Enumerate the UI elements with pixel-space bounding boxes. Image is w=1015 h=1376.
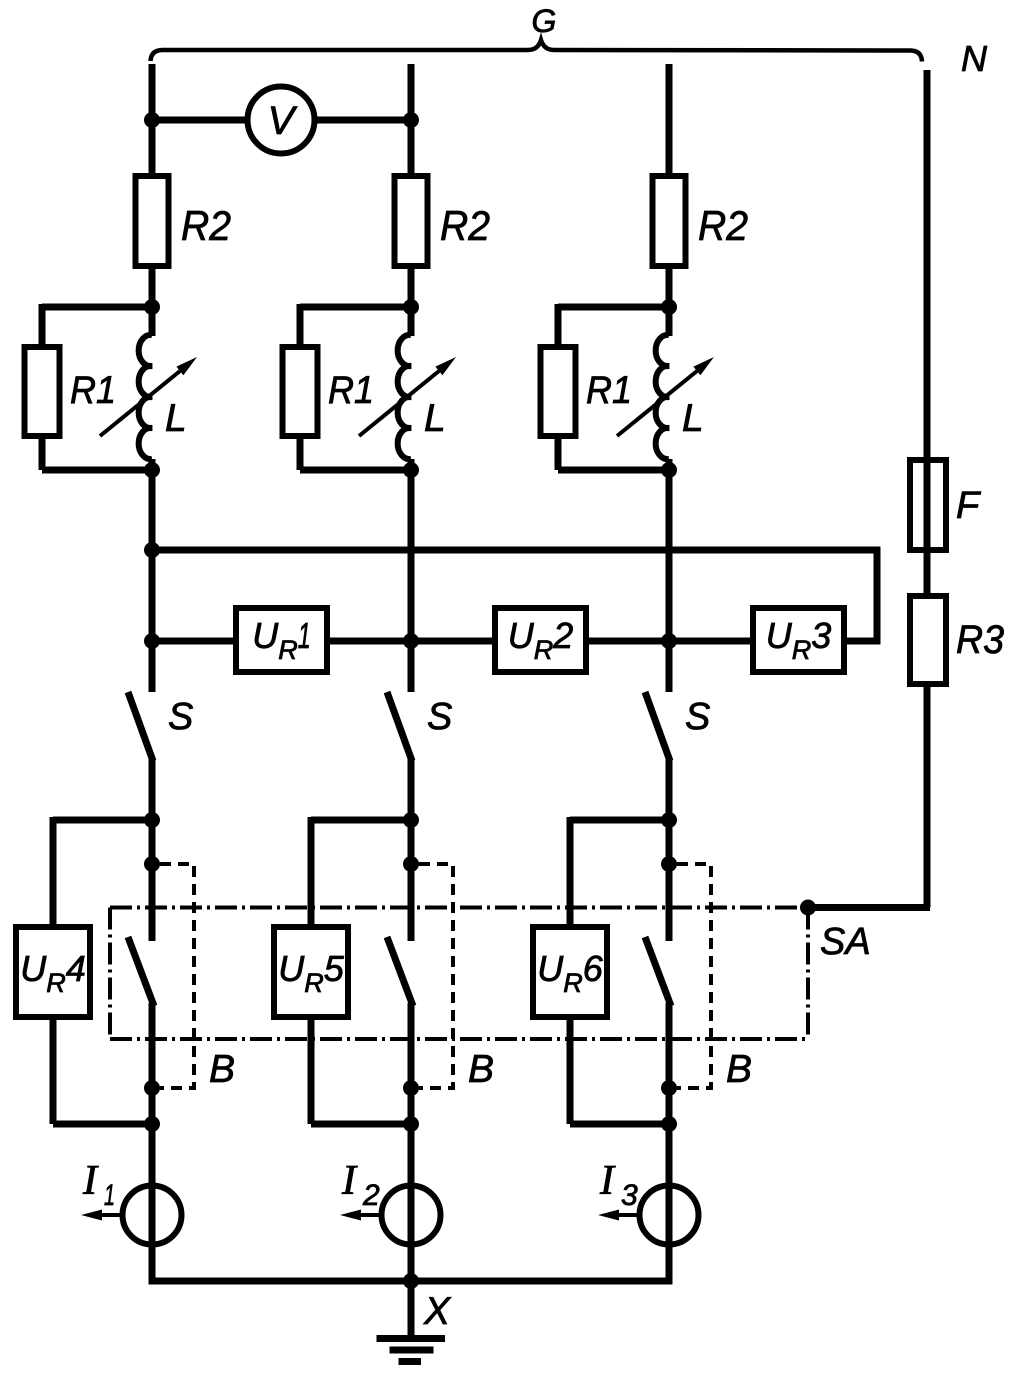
wire phase1 top stub (149, 64, 156, 179)
svg-text:UR5: UR5 (278, 948, 345, 998)
wire phase3 R2 to L (666, 265, 673, 336)
wire phase1 S to B (149, 758, 156, 941)
dashdot SA band left (108, 908, 112, 1040)
svg-text:B: B (726, 1048, 752, 1091)
svg-text:R2: R2 (181, 202, 231, 249)
node SA junction (800, 900, 816, 916)
wire phase1 R2 to L (149, 265, 156, 336)
inductor L phase2 (398, 335, 411, 459)
wire phase3 S to B (666, 758, 673, 941)
svg-text:G: G (532, 3, 557, 39)
wire R3 down (924, 684, 931, 908)
node phase3 UR6 bottom junction (661, 1116, 677, 1132)
svg-text:I: I (599, 1158, 616, 1204)
svg-text:R1: R1 (586, 369, 632, 412)
node phase3 R1-L top (661, 299, 677, 315)
arrow I3 (619, 1213, 639, 1217)
voltage relay UR5 (274, 927, 348, 1017)
node phase3 UR6 top junction (661, 812, 677, 828)
wire phase3 B to I (666, 1003, 673, 1188)
resistor R1 phase3 (541, 347, 576, 436)
svg-text:R1: R1 (328, 369, 374, 412)
svg-text:SA: SA (820, 921, 871, 963)
node phase2 UR5 top junction (403, 812, 419, 828)
wire phase3 R1 bottom connector (555, 434, 562, 470)
wire phase2 L to switch S (408, 459, 415, 692)
arrow I1 (102, 1213, 122, 1217)
node phase1 R1-L top (144, 299, 160, 315)
node phase2 R1-L top (403, 299, 419, 315)
arrow variable L phase3 (617, 371, 697, 436)
voltage relay UR6 (533, 927, 607, 1017)
current source I2 (382, 1186, 441, 1245)
svg-text:UR3: UR3 (766, 615, 832, 665)
wire phase1 B to I (149, 1003, 156, 1188)
svg-text:R3: R3 (956, 618, 1004, 662)
fuse F (910, 460, 946, 550)
wire UR line seg3 (583, 638, 756, 645)
inductor L phase1 (139, 335, 152, 459)
node phase1 UR4 top junction (144, 812, 160, 828)
node phase3 bracket bottom junction (661, 1080, 677, 1096)
switch S phase2 (387, 692, 412, 761)
dashed link B phase1 (160, 864, 194, 1088)
svg-text:UR2: UR2 (508, 615, 574, 665)
wire phase2 R2 to L (408, 265, 415, 336)
node phase3 UR line junction (661, 633, 677, 649)
svg-text:S: S (168, 696, 193, 738)
wire phase3 R1 top connector (558, 304, 669, 311)
svg-text:F: F (956, 485, 981, 527)
node phase1 top junction (144, 112, 160, 128)
svg-text:S: S (427, 696, 452, 738)
resistor R2 phase3 (653, 176, 686, 266)
dashdot SA band top (110, 906, 800, 910)
wire phase3 to UR6 (570, 817, 669, 824)
resistor R2 phase2 (395, 176, 428, 266)
node ground junction (403, 1273, 419, 1289)
node phase2 top junction (403, 112, 419, 128)
svg-text:B: B (468, 1048, 494, 1091)
resistor R3 (910, 596, 946, 684)
svg-text:1: 1 (104, 1179, 115, 1212)
svg-text:I: I (341, 1158, 358, 1204)
wire voltmeter right (315, 117, 412, 124)
relay UR3 (753, 608, 844, 672)
svg-text:3: 3 (621, 1179, 638, 1212)
switch B phase2 (387, 937, 413, 1006)
svg-text:UR4: UR4 (20, 948, 86, 998)
svg-text:S: S (685, 696, 710, 738)
svg-text:R1: R1 (70, 369, 116, 412)
wire bottom bus (152, 1278, 669, 1281)
svg-text:R2: R2 (440, 202, 490, 249)
wire voltmeter left (152, 117, 248, 124)
current source I1 (123, 1186, 182, 1245)
wire phase2 B to I (408, 1003, 415, 1188)
current source I3 (640, 1186, 699, 1245)
wire phase1 R1 top connector (42, 304, 152, 311)
arrow variable L phase1 (100, 371, 180, 436)
arrow I2 (361, 1213, 381, 1217)
resistor R2 phase1 (136, 176, 169, 266)
switch S phase3 (645, 692, 670, 761)
wire phase3 top stub (666, 64, 673, 179)
arrow variable L phase2 (359, 371, 439, 436)
svg-text:UR6: UR6 (537, 948, 604, 998)
wire UR4 bottom (50, 1014, 57, 1124)
svg-text:B: B (209, 1048, 235, 1091)
svg-text:I: I (82, 1158, 99, 1204)
dashdot SA band right (806, 908, 810, 1040)
voltmeter V1 (248, 87, 315, 154)
wire upper bus (152, 550, 877, 641)
svg-text:L: L (165, 397, 187, 440)
wire phase1 L to switch S (149, 459, 156, 692)
node phase2 bracket top junction (403, 856, 419, 872)
node phase3 bracket top junction (661, 856, 677, 872)
svg-text:L: L (424, 397, 446, 440)
svg-text:2: 2 (362, 1179, 380, 1212)
node phase3 R1-L bottom (661, 462, 677, 478)
switch S phase1 (128, 692, 153, 761)
wire SA to N (808, 904, 930, 911)
switch B phase3 (645, 937, 671, 1006)
relay UR2 (495, 608, 586, 672)
ground X (408, 1281, 415, 1338)
wire phase2 R1 top connector (300, 304, 411, 311)
node phase2 UR line junction (403, 633, 419, 649)
wire phase2 to UR5 (311, 817, 411, 824)
resistor R1 phase1 (25, 347, 60, 436)
svg-text:R2: R2 (698, 202, 748, 249)
node phase1 UR4 bottom junction (144, 1116, 160, 1132)
node phase2 bracket bottom junction (403, 1080, 419, 1096)
wire phase2 top stub (408, 64, 415, 179)
wire UR line seg2 (324, 638, 498, 645)
voltage relay UR4 (16, 927, 90, 1017)
wire phase2 R1 bottom connector (297, 434, 304, 470)
dashdot SA band bottom (110, 1037, 808, 1041)
svg-text:UR1: UR1 (252, 615, 311, 665)
wire phase3 L to switch S (666, 459, 673, 692)
wire UR5 bottom (308, 1014, 315, 1124)
inductor L phase3 (656, 335, 669, 459)
dashed link B phase3 (677, 864, 711, 1088)
svg-text:V: V (268, 99, 298, 143)
node G brace (151, 40, 923, 62)
wire phase2 S to B (408, 758, 415, 941)
node phase1 bracket top junction (144, 856, 160, 872)
wire phase1 R1 bottom connector (39, 434, 46, 470)
node phase1 UR line junction (144, 633, 160, 649)
switch B phase1 (128, 937, 154, 1006)
resistor R1 phase2 (283, 347, 318, 436)
node phase2 R1-L bottom (403, 462, 419, 478)
svg-text:X: X (423, 1290, 452, 1333)
node phase1 R1-L bottom (144, 462, 160, 478)
wire phase1 to UR4 (53, 817, 152, 824)
node phase2 UR5 bottom junction (403, 1116, 419, 1132)
relay UR1 (236, 608, 327, 672)
svg-text:L: L (682, 397, 704, 440)
wire UR6 bottom (567, 1014, 574, 1124)
dashed link B phase2 (419, 864, 453, 1088)
wire UR line seg1 (152, 638, 239, 645)
node phase1 bus junction (144, 542, 160, 558)
wire N line (924, 70, 931, 599)
svg-text:N: N (961, 38, 988, 79)
node phase1 bracket bottom junction (144, 1080, 160, 1096)
